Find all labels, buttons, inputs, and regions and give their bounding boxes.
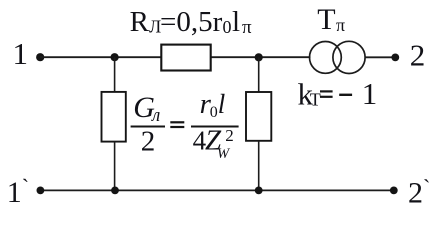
- svg-text:1: 1: [13, 36, 29, 71]
- terminal label 1: [13, 36, 29, 71]
- label kT=-1: [298, 76, 378, 112]
- junction dot bottom-left: [111, 187, 119, 195]
- svg-text:l: l: [232, 6, 240, 38]
- svg-text:1: 1: [362, 76, 378, 111]
- node 1` dot: [37, 187, 45, 195]
- wire left branch lower: [114, 142, 116, 191]
- formula Gл/2 = r0l/4ZW2: [131, 88, 239, 162]
- label RЛ=0,5r0lπ: [130, 6, 252, 38]
- svg-text:л: л: [151, 105, 160, 126]
- svg-text:π: π: [242, 17, 252, 38]
- svg-text:T: T: [317, 3, 335, 36]
- wire top-left (node 1 to resistor RЛ): [40, 56, 162, 58]
- node 2 dot: [391, 54, 399, 62]
- wire right branch upper: [258, 57, 260, 92]
- svg-text:0: 0: [223, 17, 232, 37]
- terminal label 2`: [408, 175, 430, 210]
- svg-text:0: 0: [210, 104, 218, 121]
- junction dot bottom-right: [255, 187, 263, 195]
- terminal label 1`: [7, 174, 29, 209]
- wire right branch lower: [258, 141, 260, 191]
- node 1 dot: [36, 53, 44, 61]
- transformer Tπ circle right: [333, 41, 365, 73]
- node 2` dot: [390, 187, 398, 195]
- svg-text:2: 2: [141, 126, 156, 158]
- svg-text:π: π: [336, 15, 345, 35]
- resistor Gл/2 left: [102, 92, 126, 142]
- svg-text:T: T: [310, 90, 321, 110]
- svg-text:2: 2: [410, 38, 426, 73]
- junction dot top-right: [255, 53, 263, 61]
- label Tπ: [317, 3, 345, 36]
- wire transformer to node 2: [365, 56, 395, 58]
- svg-text:l: l: [218, 89, 226, 119]
- junction dot top-left: [111, 53, 119, 61]
- resistor RЛ (series): [161, 45, 210, 71]
- wire left branch upper: [114, 57, 116, 92]
- svg-text:R: R: [130, 6, 150, 38]
- wire top-middle (resistor RЛ to transformer): [211, 56, 311, 58]
- svg-text:2: 2: [225, 126, 234, 145]
- wire bottom (1` to 2`): [40, 189, 393, 191]
- transformer Tπ circle left: [310, 42, 342, 74]
- svg-text:=0,5r: =0,5r: [160, 6, 223, 38]
- svg-text:W: W: [217, 146, 231, 162]
- terminal label 2: [410, 38, 426, 73]
- resistor Gл/2 right: [246, 92, 271, 141]
